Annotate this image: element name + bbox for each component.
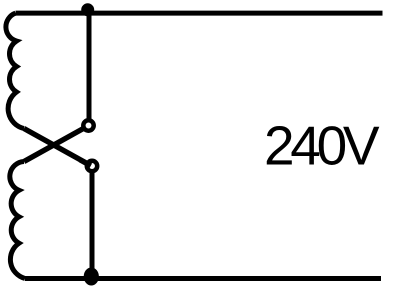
wire: diagonal tip overlapping lower terminal xyxy=(80,160,91,166)
wire: vertical from top junction to upper terminal xyxy=(87,13,92,120)
svg-text:240V: 240V xyxy=(264,115,380,177)
wire: diagonal from upper terminal to L2 top xyxy=(24,127,86,162)
terminal: lower open circle xyxy=(87,161,97,171)
terminal: upper open circle xyxy=(83,120,93,130)
wire: bottom horizontal rail xyxy=(25,276,381,281)
inductor L2 (bottom coil) xyxy=(10,162,25,279)
junction node: bottom dot xyxy=(84,268,99,286)
inductor L1 (top coil) xyxy=(6,13,24,128)
junction node: top dot xyxy=(81,3,94,16)
wire: diagonal from L1 bottom to lower terminal xyxy=(24,129,93,167)
wire: vertical from lower terminal to bottom junction xyxy=(90,171,95,278)
wire: top horizontal rail xyxy=(16,11,383,16)
